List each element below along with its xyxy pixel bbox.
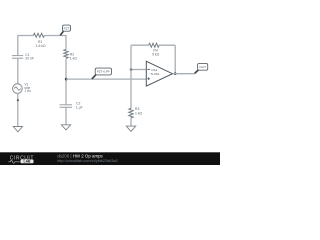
C1 value label: [25, 53, 34, 61]
op-amp OA1 label: [150, 68, 160, 76]
R1 value label: [36, 40, 46, 48]
svg-text:http://circuitlab.com/c4ybtk22: http://circuitlab.com/c4ybtk22b63a2: [57, 159, 118, 163]
flag PZT leader: [60, 31, 63, 35]
svg-text:OUT: OUT: [199, 65, 206, 69]
wire main vertical (corner to R2): [65, 35, 67, 50]
capacitor C2: [60, 104, 72, 106]
node junction dot (- input net): [130, 68, 133, 71]
svg-text:20 nF: 20 nF: [25, 57, 34, 61]
op-amp plus pin mark: [147, 78, 150, 80]
wire left vertical upper (to C1): [17, 35, 19, 55]
flag PZT+LPF: [95, 68, 111, 75]
wire R3 to ground: [130, 118, 132, 126]
C2 value label: [76, 102, 83, 110]
CircuitLab logo wave: [8, 160, 19, 163]
svg-text:1 µF: 1 µF: [76, 106, 83, 110]
wire - node down to R3: [130, 70, 132, 109]
V1 polarity mark: [17, 99, 19, 101]
wire inverting input (to op-amp -): [131, 69, 146, 71]
wire top horizontal left segment: [18, 35, 34, 37]
flag OUT: [198, 63, 208, 70]
R2 value label: [70, 53, 78, 61]
wire feedback top left segment: [131, 44, 149, 46]
wire C2 to ground: [65, 108, 67, 125]
wire C1 to V1: [17, 59, 19, 84]
svg-text:PZT+LPF: PZT+LPF: [97, 70, 110, 74]
node junction dot (+ input net): [65, 78, 68, 81]
R4 value label: [152, 49, 160, 57]
node junction dot (output net): [174, 72, 177, 75]
svg-text:PZT: PZT: [64, 26, 70, 30]
V1 value label: [24, 83, 31, 93]
svg-text:1 kΩ: 1 kΩ: [135, 112, 143, 116]
svg-text:ds206 | HW 2 Op amps: ds206 | HW 2 Op amps: [57, 153, 103, 158]
voltage source V1: [13, 84, 23, 94]
svg-text:LAB: LAB: [24, 160, 32, 164]
wire feedback left vertical: [130, 45, 132, 69]
resistor R2: [64, 50, 68, 59]
ground (V1): [13, 127, 22, 132]
svg-text:9 kΩ: 9 kΩ: [152, 52, 160, 56]
flag PZT: [63, 25, 71, 31]
wire top horizontal right segment: [44, 35, 66, 37]
CircuitLab logo LAB box: [21, 160, 34, 164]
capacitor C1: [12, 55, 23, 57]
wire output: [173, 73, 195, 75]
wire feedback right vertical: [174, 45, 176, 73]
svg-text:1 kΩ: 1 kΩ: [70, 56, 78, 60]
op-amp minus pin mark: [147, 68, 150, 70]
wire feedback top right segment: [159, 44, 175, 46]
watermark bar: [0, 152, 220, 165]
flag PZT+LPF leader: [92, 75, 96, 79]
ground (C2): [61, 125, 70, 130]
wire R2 to C2: [65, 58, 67, 104]
ground (R3): [126, 126, 135, 131]
wire V1 to ground: [17, 93, 19, 126]
flag OUT leader: [195, 70, 199, 73]
op-amp OA1: [146, 61, 172, 86]
resistor R1: [34, 33, 45, 37]
svg-text:TL081: TL081: [150, 72, 160, 76]
resistor R3: [129, 108, 133, 118]
resistor R4: [149, 43, 159, 47]
svg-text:1 Hz: 1 Hz: [24, 89, 31, 93]
wire noninverting input (to op-amp +): [66, 78, 146, 80]
svg-text:1.6 kΩ: 1.6 kΩ: [36, 44, 46, 48]
svg-text:R3: R3: [135, 107, 139, 111]
R3 value label: [135, 107, 143, 115]
